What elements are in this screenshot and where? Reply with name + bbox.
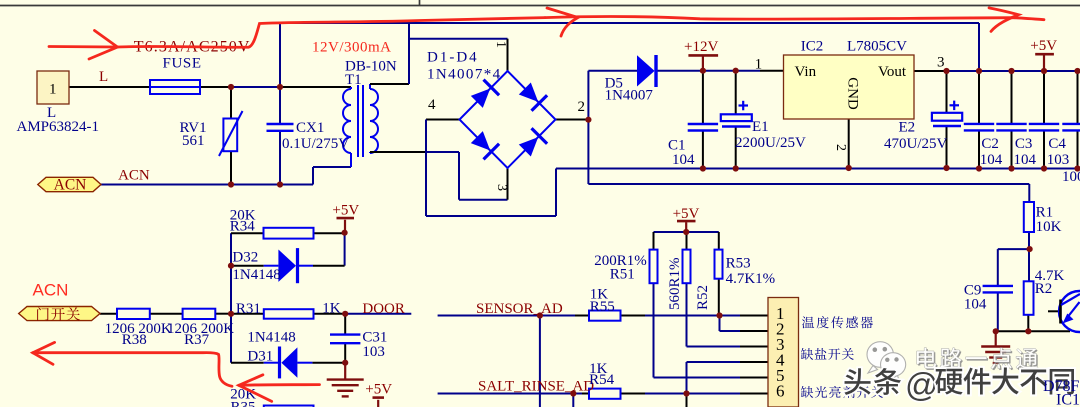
svg-text:CX1: CX1 — [296, 120, 324, 136]
svg-text:R55: R55 — [590, 299, 615, 315]
svg-text:+5V: +5V — [332, 202, 359, 218]
svg-text:1N4007: 1N4007 — [605, 88, 654, 104]
svg-text:DOOR: DOOR — [362, 301, 405, 317]
svg-text:1: 1 — [493, 41, 508, 48]
svg-text:12V/300mA: 12V/300mA — [312, 40, 392, 56]
svg-text:2: 2 — [578, 99, 586, 115]
svg-text:104: 104 — [980, 152, 1003, 168]
svg-text:IC2: IC2 — [801, 38, 824, 54]
svg-text:3: 3 — [494, 184, 509, 191]
svg-text:103: 103 — [1047, 152, 1070, 168]
svg-text:C2: C2 — [981, 136, 999, 152]
svg-text:+12V: +12V — [684, 39, 718, 55]
svg-text:104: 104 — [964, 296, 987, 312]
svg-text:AMP63824-1: AMP63824-1 — [17, 119, 100, 135]
svg-text:FUSE: FUSE — [163, 56, 202, 72]
svg-text:Vout: Vout — [878, 64, 907, 80]
svg-text:ACN: ACN — [33, 280, 69, 299]
svg-text:1: 1 — [49, 82, 57, 98]
svg-text:L7805CV: L7805CV — [847, 38, 907, 54]
svg-text:IC1: IC1 — [1056, 392, 1080, 407]
svg-text:561: 561 — [182, 133, 205, 149]
svg-text:R54: R54 — [589, 372, 615, 388]
svg-text:T1: T1 — [345, 72, 362, 88]
svg-text:R31: R31 — [236, 301, 261, 317]
svg-text:D32: D32 — [232, 250, 258, 266]
svg-text:R34: R34 — [230, 219, 256, 235]
svg-text:R51: R51 — [610, 267, 635, 283]
svg-text:0.1U/275V: 0.1U/275V — [282, 136, 349, 152]
svg-text:D31: D31 — [247, 348, 273, 364]
svg-text:Vin: Vin — [795, 64, 817, 80]
svg-text:560R1%: 560R1% — [667, 258, 683, 311]
svg-text:ACN: ACN — [54, 177, 87, 194]
svg-text:+5V: +5V — [673, 206, 700, 222]
svg-text:L: L — [99, 69, 108, 85]
svg-text:R35: R35 — [231, 400, 256, 407]
svg-text:470U/25V: 470U/25V — [884, 136, 948, 152]
svg-text:E2: E2 — [899, 120, 916, 136]
svg-text:R53: R53 — [726, 256, 751, 272]
svg-text:3: 3 — [937, 55, 945, 71]
svg-text:1N4007*4: 1N4007*4 — [427, 67, 502, 83]
svg-text:4.7K1%: 4.7K1% — [726, 271, 776, 287]
svg-text:SENSOR_AD: SENSOR_AD — [476, 301, 563, 317]
svg-text:R37: R37 — [184, 332, 210, 348]
svg-text:R2: R2 — [1035, 281, 1053, 297]
svg-text:GND: GND — [845, 77, 861, 110]
svg-text:104: 104 — [1014, 152, 1037, 168]
svg-text:6: 6 — [776, 382, 785, 401]
svg-text:2: 2 — [833, 144, 848, 151]
svg-text:104: 104 — [672, 152, 695, 168]
svg-text:2200U/25V: 2200U/25V — [735, 135, 806, 151]
svg-text:1N4148: 1N4148 — [232, 267, 280, 283]
svg-text:R38: R38 — [122, 332, 147, 348]
svg-text:C4: C4 — [1048, 136, 1066, 152]
svg-text:1K: 1K — [322, 300, 341, 316]
svg-text:@: @ — [905, 366, 939, 403]
svg-text:R52: R52 — [695, 285, 711, 310]
svg-text:10K: 10K — [1036, 219, 1062, 235]
svg-text:1: 1 — [755, 57, 763, 73]
svg-text:C3: C3 — [1015, 136, 1033, 152]
svg-text:ACN: ACN — [118, 168, 150, 184]
svg-text:100: 100 — [1062, 169, 1080, 185]
svg-text:4: 4 — [428, 97, 436, 113]
svg-text:+5V: +5V — [1030, 38, 1057, 54]
svg-text:103: 103 — [362, 344, 385, 360]
svg-text:SALT_RINSE_AD: SALT_RINSE_AD — [478, 379, 594, 395]
svg-text:1N4148: 1N4148 — [247, 330, 295, 346]
svg-text:+5V: +5V — [365, 382, 392, 398]
svg-text:D1-D4: D1-D4 — [427, 50, 479, 66]
svg-text:E1: E1 — [752, 119, 769, 135]
